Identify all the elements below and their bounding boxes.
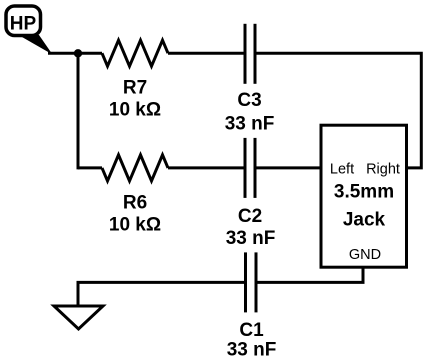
svg-text:R6: R6 — [123, 193, 147, 214]
svg-text:HP: HP — [10, 14, 37, 35]
svg-text:C2: C2 — [238, 206, 262, 227]
svg-text:33 nF: 33 nF — [225, 114, 275, 135]
svg-text:C3: C3 — [237, 90, 261, 111]
svg-text:3.5mm: 3.5mm — [334, 182, 394, 203]
svg-text:33 nF: 33 nF — [227, 340, 277, 360]
svg-text:Right: Right — [366, 162, 400, 178]
svg-text:Left: Left — [330, 162, 354, 178]
svg-text:Jack: Jack — [343, 210, 386, 231]
svg-text:10 kΩ: 10 kΩ — [109, 100, 161, 121]
svg-text:GND: GND — [349, 247, 381, 263]
svg-text:C1: C1 — [239, 320, 264, 341]
svg-text:10 kΩ: 10 kΩ — [109, 215, 161, 236]
svg-text:33 nF: 33 nF — [226, 228, 276, 249]
svg-text:R7: R7 — [123, 78, 147, 99]
